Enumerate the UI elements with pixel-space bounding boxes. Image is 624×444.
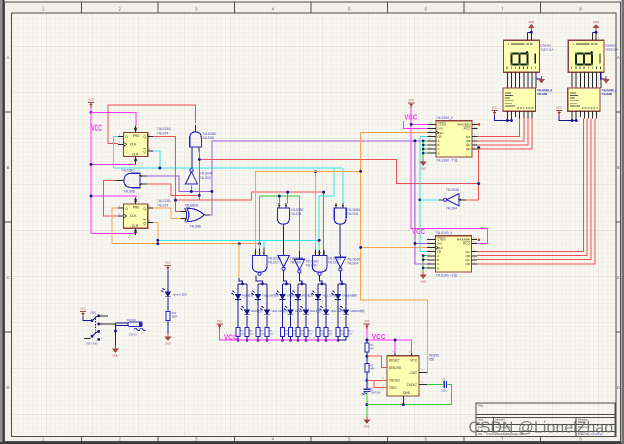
- pin stub display 1 seg c: [579, 72, 581, 88]
- wire R2 to C1: [366, 372, 368, 389]
- wire red U2C output to FF2 CLK: [104, 180, 119, 216]
- stub NAND2 in2: [318, 251, 320, 256]
- pin stub display 2 seg e: [523, 72, 525, 88]
- svg-text:OUT: OUT: [410, 371, 417, 375]
- wire to LED row1 col 5: [317, 284, 319, 295]
- svg-text:SOUND: SOUND: [127, 318, 136, 322]
- wire purple inverter input stub: [190, 186, 192, 192]
- power port GND (display 1 dp): [603, 76, 610, 83]
- pin stub decoder 1 input A: [583, 111, 585, 118]
- wire R13 to VCC rail: [337, 337, 339, 341]
- junction orange-green: [258, 242, 261, 245]
- wire purple U2C input1 net: [147, 176, 212, 192]
- wire red counter2 QD to decoder1: [477, 119, 532, 149]
- wire navy U2B out to inverter: [282, 227, 284, 255]
- svg-text:RED红色: RED红色: [302, 294, 313, 298]
- svg-text:74LS08: 74LS08: [124, 189, 136, 193]
- wire orange to counter1 CLK: [361, 246, 428, 248]
- stub display pin: [591, 32, 593, 40]
- svg-text:RCO: RCO: [463, 242, 470, 246]
- wire red counter2 QC to decoder1: [477, 119, 528, 145]
- power port VCC (decoder 1): [556, 106, 562, 116]
- junction branch pair 5: [321, 282, 324, 285]
- wire switch throw1: [100, 315, 108, 317]
- junction cyan start: [156, 239, 159, 242]
- wire red FF1 Q to XOR input: [153, 136, 181, 211]
- wire branch split pair 2: [258, 283, 267, 285]
- pin stub display 1 seg d: [583, 72, 585, 88]
- pin stub display 1 seg a: [571, 72, 573, 88]
- resistor R12 200R: [324, 327, 328, 336]
- wire branch split pair 3: [283, 283, 291, 285]
- wire cyan drop to NAND2: [319, 168, 334, 251]
- wire navy decoder vcc: [559, 116, 576, 121]
- wire to LED row2 col 4: [305, 284, 307, 310]
- power port VCC (speed LED): [165, 261, 171, 271]
- wire red long bus to right: [199, 159, 479, 183]
- pin stub decoder 1 input D: [596, 111, 598, 118]
- wire to LED row2 col 6: [345, 284, 347, 310]
- wire red drop to NAND2 input: [323, 192, 325, 251]
- svg-text:RED红色: RED红色: [242, 294, 253, 298]
- wire orange drop to LED pair 1: [238, 244, 240, 278]
- sheet edge shadows: [0, 0, 3, 444]
- junction red drop2: [322, 191, 325, 194]
- wire green counter2 pin B: [423, 144, 427, 146]
- junction red Q1: [174, 199, 177, 202]
- wire LED8 to R16: [167, 297, 169, 311]
- wire magenta to counter2 CTEN: [411, 123, 427, 125]
- resistor R14 200R: [344, 327, 348, 336]
- junction green: [278, 195, 281, 198]
- pin stub display 2 seg c: [515, 72, 517, 88]
- junction branch pair 2: [261, 282, 264, 285]
- junction magenta CTEN2: [410, 123, 413, 126]
- power port VCC (decoder 2): [491, 106, 497, 116]
- wire LED2 to resistor: [345, 315, 347, 327]
- wire cyan bus y240: [158, 239, 319, 241]
- stub NAND1 in1: [255, 249, 257, 255]
- wire branch feed pair 5: [320, 276, 322, 284]
- junction red drop: [286, 191, 289, 194]
- svg-text:74LS08: 74LS08: [347, 212, 358, 216]
- wire R5 to VCC rail: [257, 337, 259, 341]
- svg-text:CLR: CLR: [132, 152, 139, 156]
- svg-text:CSDN @LionelZhao: CSDN @LionelZhao: [469, 420, 614, 437]
- svg-text:B: B: [7, 165, 10, 170]
- stub NAND1 in3: [263, 248, 265, 256]
- stub INV2 in: [283, 254, 285, 256]
- wire green counter1 ground tie: [422, 256, 424, 272]
- svg-text:74LS74: 74LS74: [157, 132, 169, 136]
- svg-text:SW1: SW1: [90, 310, 97, 314]
- wire branch feed pair 4: [299, 273, 302, 284]
- junction decoder: [575, 119, 578, 122]
- junction orange branch: [359, 170, 362, 173]
- wire red drop to AND U2B input: [287, 192, 289, 203]
- wire buzzer top: [116, 322, 128, 324]
- power port VCC (LED rail left): [216, 319, 222, 329]
- junction green counter1 A: [422, 254, 425, 257]
- wire LED1 to resistor: [317, 300, 319, 327]
- wire to switch pole: [83, 317, 91, 321]
- counter U9 74LS190_1: [427, 231, 477, 277]
- wire red to THOLD: [367, 379, 387, 381]
- power port VCC (555 area): [364, 319, 370, 329]
- junction red bus inverter: [477, 182, 480, 185]
- pin stub display 1 seg h: [600, 72, 602, 88]
- inverter U3C 74LS04: [294, 259, 305, 270]
- wire to LED row2 col 1: [246, 284, 248, 310]
- svg-text:GND: GND: [113, 354, 119, 358]
- LED D4 YELLOW黄色 (row2): [260, 306, 270, 315]
- power port GND (555): [363, 417, 370, 429]
- wire branch feed pair 2: [256, 276, 263, 284]
- wire cyan vertical LD link: [420, 137, 427, 252]
- svg-text:DISCHG: DISCHG: [389, 366, 402, 370]
- stub decoder pin2: [511, 111, 513, 120]
- wire green C3 to ground rail: [448, 385, 452, 405]
- wire navy display dp to gnd: [536, 72, 542, 79]
- svg-text:RED红色: RED红色: [251, 309, 262, 313]
- svg-text:74LS04: 74LS04: [306, 264, 317, 268]
- stub display pin: [595, 32, 597, 40]
- svg-text:74LS86A: 74LS86A: [185, 203, 199, 207]
- wire orange NAND1 input2: [259, 244, 261, 249]
- wire LED1 to resistor: [297, 300, 299, 327]
- NAND gate U5A 74LS10 (3-input): [252, 256, 267, 273]
- junction green counter2 D: [422, 152, 425, 155]
- junction cyan inverter out: [418, 198, 421, 201]
- junction rail col 11: [337, 339, 340, 342]
- junction branch pair 3: [285, 282, 288, 285]
- junction magenta PRE2: [90, 195, 93, 198]
- wire branch split pair 4: [298, 283, 306, 285]
- junction rail col 8: [305, 339, 308, 342]
- LED D10 YELLOW黄色 (row2): [319, 306, 329, 315]
- stub 555 OUT pin: [419, 371, 427, 373]
- svg-text:GREEN绿色: GREEN绿色: [342, 294, 357, 298]
- wire cyan to counter2 LD: [420, 136, 428, 138]
- AND gate U2C 74LS08 (pointing left): [124, 173, 140, 188]
- wire magenta to 555 pins: [367, 339, 412, 341]
- svg-text:74LS190 -十位: 74LS190 -十位: [435, 273, 458, 278]
- stub decoder pin1: [571, 111, 573, 120]
- junction rail col 6: [289, 339, 292, 342]
- svg-text:VCC: VCC: [88, 98, 94, 102]
- wire green drop to AND U2B input: [278, 196, 280, 203]
- wire LED2 to resistor: [290, 315, 292, 327]
- junction green counter2 A: [422, 140, 425, 143]
- wire R14 jog to rail: [338, 337, 346, 341]
- wire branch feed pair 1: [239, 278, 242, 284]
- pin stub decoder 1 input C: [592, 111, 594, 118]
- wire orange FF2 Q to XOR input: [153, 208, 181, 219]
- power port GND (display 2): [528, 20, 535, 31]
- svg-text:100n: 100n: [441, 390, 447, 393]
- stub 555 VCC pin: [411, 353, 413, 356]
- LED D9 YELLOW黄色 (row1): [311, 291, 321, 300]
- pin stub display 1 seg e: [588, 72, 590, 88]
- wire to LED row2 col 2: [266, 284, 268, 310]
- junction rail col 9: [317, 339, 320, 342]
- junction purple split: [413, 139, 416, 142]
- junction branch pair 6: [341, 282, 344, 285]
- svg-text:PRE: PRE: [133, 206, 140, 210]
- svg-text:Title: Title: [478, 404, 484, 408]
- NAND gate U5B 74LS10 (3-input): [312, 256, 327, 273]
- wire green counter1 pin A: [423, 255, 427, 257]
- svg-text:4K7: 4K7: [370, 347, 375, 350]
- wire to LED row2 col 3: [290, 284, 292, 310]
- junction at VCC1: [90, 111, 93, 114]
- stub display pin: [527, 32, 529, 40]
- svg-text:74LS190_1: 74LS190_1: [435, 231, 452, 235]
- power port GND (display 1): [592, 20, 599, 31]
- LED D2 RED红色 (row2): [240, 306, 250, 315]
- LED D5 GREEN绿色 (row1): [276, 291, 286, 300]
- resistor R11 200R: [316, 327, 320, 336]
- svg-text:A: A: [617, 55, 620, 60]
- svg-text:GND: GND: [165, 342, 171, 346]
- wire red counter1 QC to decoder2: [477, 119, 591, 260]
- counter U8 74LS190_2: [428, 116, 478, 162]
- junction display gnd: [530, 31, 533, 34]
- junction orange clk: [359, 246, 362, 249]
- junction branch pair 4: [301, 282, 304, 285]
- junction rail col 7: [297, 339, 300, 342]
- svg-text:THOLD: THOLD: [389, 379, 401, 383]
- resistor R13 200R: [336, 327, 340, 336]
- power port GND (counter1): [420, 272, 427, 284]
- wire to LED row1 col 4: [297, 284, 299, 295]
- wire cyan from FF1 Qbar: [159, 151, 161, 168]
- svg-text:Q: Q: [143, 207, 146, 211]
- resistor R4 200R: [245, 327, 249, 336]
- resistor R8 200R: [289, 327, 293, 336]
- junction rail col 10: [325, 339, 328, 342]
- pin stub display 2 seg b: [511, 72, 513, 88]
- stub NAND2 in3: [323, 251, 325, 256]
- svg-text:TRIG: TRIG: [389, 386, 397, 390]
- junction rail col 4: [266, 339, 269, 342]
- stub decoder pin3: [579, 111, 581, 117]
- svg-text:GREEN绿色: GREEN绿色: [350, 309, 365, 313]
- resistor R1: [365, 343, 369, 352]
- inverter U3B 74LS04: [278, 256, 290, 268]
- svg-text:KEY SW: KEY SW: [87, 342, 98, 346]
- junction R1-R2: [365, 355, 368, 358]
- svg-text:74LS08: 74LS08: [202, 136, 214, 140]
- svg-text:74LS48: 74LS48: [537, 92, 548, 96]
- wire green counter2 ground tie: [422, 141, 424, 159]
- power port VCC (top-left): [88, 98, 94, 108]
- wire green counter1 pin D: [423, 267, 427, 269]
- resistor R2: [365, 364, 369, 373]
- wire red mid net to gates: [199, 192, 323, 200]
- wire green counter1 pin B: [423, 259, 427, 261]
- wire cyan inverter output: [420, 199, 439, 201]
- resistor R6 200R: [265, 327, 269, 336]
- power port GND (display 2 dp): [538, 76, 545, 83]
- pin stub decoder 2 input D: [531, 111, 533, 118]
- wire magenta to FF2 PRE: [91, 196, 136, 198]
- wire green ring left side: [259, 196, 261, 244]
- svg-text:46K: 46K: [370, 368, 375, 371]
- flip-flop U1B 74LS74B: [118, 197, 153, 235]
- wire switch throw4 stub: [84, 338, 91, 340]
- junction decoder: [571, 119, 574, 122]
- svg-text:VCC: VCC: [165, 261, 171, 265]
- LED D6 GREEN绿色 (row2): [284, 306, 294, 315]
- wire to LED row2 col 5: [325, 284, 327, 310]
- wire magenta VCC stub drop: [366, 329, 368, 340]
- wire orange branch to NAND1 input: [256, 171, 361, 249]
- wire R6 to VCC rail: [266, 337, 268, 341]
- svg-text:74LS04: 74LS04: [446, 207, 457, 211]
- svg-text:VCC: VCC: [492, 106, 498, 110]
- junction rail col 5: [281, 339, 284, 342]
- decoder U6 74LS48: [503, 88, 552, 111]
- buzzer LS1 SOUND: [128, 322, 146, 331]
- svg-text:VCC: VCC: [364, 319, 370, 323]
- junction buzzer gnd: [114, 329, 117, 332]
- svg-text:VCC: VCC: [80, 307, 86, 311]
- capacitor C3 100n: [444, 381, 446, 388]
- wire orange FF2 D net: [112, 208, 260, 244]
- svg-text:VCC: VCC: [410, 358, 417, 362]
- junction red: [198, 194, 201, 197]
- power port GND (speed LED): [164, 334, 171, 346]
- LED D12 GREEN绿色 (row2): [339, 306, 349, 315]
- stub 555 GND pin: [402, 396, 404, 405]
- wire branch split pair 5: [318, 283, 326, 285]
- stub INV4 in: [339, 255, 341, 257]
- svg-text:74LS04: 74LS04: [347, 262, 358, 266]
- svg-text:B: B: [617, 165, 620, 170]
- title block: [476, 403, 615, 437]
- power port VCC (counter2): [408, 98, 414, 108]
- junction green counter1 D: [422, 267, 425, 270]
- svg-text:PRE: PRE: [133, 134, 140, 138]
- junction orange NAND2 feed: [314, 170, 317, 173]
- junction magenta CLR1: [90, 163, 93, 166]
- wire VCC to LED8: [167, 271, 169, 292]
- resistor R16 200R: [166, 312, 170, 321]
- junction branch pair 1: [241, 282, 244, 285]
- wire R1 to R2: [366, 352, 368, 364]
- svg-text:A: A: [7, 55, 10, 60]
- stub decoder pin3: [515, 111, 517, 117]
- wire red counter1 QA to decoder2: [477, 119, 583, 252]
- wire magenta VCC to counter1 RCO loop: [411, 108, 487, 244]
- wire red counter1 QB to decoder2: [477, 119, 587, 256]
- junction cyan: [158, 167, 161, 170]
- AND gate U2D 74LS08 (vertical): [190, 132, 202, 147]
- 7-segment display DS6401: [568, 40, 618, 72]
- wire R9 to VCC rail: [297, 337, 299, 341]
- wire magenta to FF2 CLR: [91, 233, 136, 235]
- junction rail col 1: [237, 339, 240, 342]
- wire green C1 to ground rail: [366, 392, 368, 419]
- wire red counter2 QB to decoder1: [477, 119, 524, 141]
- wire red vertical from AND input: [198, 147, 200, 200]
- svg-text:Q: Q: [143, 221, 146, 225]
- wire navy decoder vcc: [495, 116, 512, 121]
- inverter U3F 74LS04 (pointing up): [186, 172, 198, 184]
- wire red clock net (gate output to FF1 CLK): [108, 105, 196, 144]
- junction decoder: [510, 119, 513, 122]
- wire LED1 to resistor: [337, 300, 339, 327]
- wire green ground rail: [367, 404, 452, 406]
- junction green gnd rail: [365, 403, 368, 406]
- stub decoder pin1: [506, 111, 508, 120]
- 7-segment display DS6402: [504, 40, 554, 72]
- junction orange: [156, 242, 159, 245]
- wire green CVOLT to C3: [427, 384, 443, 386]
- wire R7 to VCC rail: [282, 337, 284, 341]
- power port GND (buzzer): [112, 346, 119, 358]
- junction magenta R1 top: [365, 339, 368, 342]
- wire magenta to VCC pin: [411, 340, 413, 353]
- junction red bus: [198, 158, 201, 161]
- wire purple to counter1 D/U: [415, 141, 427, 244]
- wire red branch: [176, 199, 200, 201]
- ruler tick marks and labels: [81, 2, 83, 13]
- wire green ring right side to inverter: [298, 196, 300, 251]
- svg-text:Q: Q: [143, 150, 146, 154]
- svg-text:74LS190_2: 74LS190_2: [436, 116, 453, 120]
- junction green GND pin: [402, 403, 405, 406]
- wire navy display top: [592, 31, 596, 33]
- wire R11 to VCC rail: [317, 337, 319, 341]
- svg-text:QD: QD: [465, 262, 470, 266]
- resistor R5 200R: [256, 327, 260, 336]
- AND gate U2B 74LS08 (vertical): [277, 208, 289, 224]
- svg-text:Q: Q: [143, 135, 146, 139]
- wire to LED row1 col 1: [237, 284, 239, 295]
- svg-text:74LS04A: 74LS04A: [446, 188, 460, 192]
- wire LED2 to resistor: [246, 315, 248, 327]
- junction rail col 3: [257, 339, 260, 342]
- wire to LED row1 col 6: [337, 284, 339, 295]
- svg-text:3.5F13: 3.5F13: [129, 332, 138, 336]
- svg-text:VCC: VCC: [217, 319, 223, 323]
- switch SW1 KEY: [91, 315, 100, 340]
- svg-text:D: D: [6, 385, 9, 390]
- wire buzzer bottom: [116, 325, 128, 327]
- pin stub display 2 seg d: [519, 72, 521, 88]
- svg-text:74LS04: 74LS04: [200, 176, 212, 180]
- wire R3 to VCC rail: [237, 337, 239, 341]
- pin stub decoder 1 input B: [588, 111, 590, 118]
- stub display pin: [531, 32, 533, 40]
- wire red counter1 QD to decoder2: [477, 119, 595, 264]
- resistor R3 200R: [236, 327, 240, 336]
- svg-text:GND: GND: [403, 391, 411, 395]
- svg-text:CLK: CLK: [130, 214, 137, 218]
- stub 555 RESET pin: [394, 353, 396, 356]
- stub NAND2 in1: [314, 249, 316, 255]
- wire orange 555 OUT to counter clocks: [361, 133, 428, 373]
- svg-text:VCC: VCC: [408, 98, 414, 102]
- LED D3 YELLOW黄色 (row1): [251, 291, 260, 300]
- svg-text:VCC: VCC: [412, 227, 425, 236]
- resistor R9 200R: [296, 327, 300, 336]
- svg-text:GND: GND: [528, 20, 534, 24]
- svg-text:74LS86: 74LS86: [190, 225, 202, 229]
- pin stub display 2 seg f: [527, 72, 529, 88]
